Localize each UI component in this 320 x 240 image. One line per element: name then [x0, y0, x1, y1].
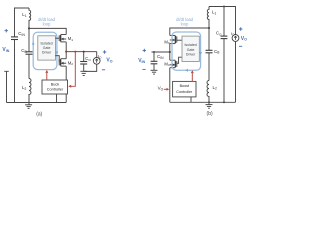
svg-text:loop: loop: [43, 21, 51, 26]
ground output (a): [80, 71, 87, 75]
svg-text:L1: L1: [212, 10, 217, 16]
node CO tap junction top (b): [223, 6, 225, 8]
wire VIN- rail lower segment (a): [14, 40, 16, 103]
node CO rail junction (b): [223, 101, 225, 103]
U1 isolated gate driver box (a): [38, 36, 56, 60]
node VO plus (a): [103, 50, 106, 53]
node VIN plus sign (a): [5, 29, 9, 32]
wire bridge bottom to rail (a): [65, 66, 67, 102]
svg-text:Gate: Gate: [187, 48, 195, 52]
inductor L2 (a): [22, 79, 31, 103]
inductor L1 (a): [22, 8, 30, 28]
node feedback tap junction (a): [74, 51, 76, 53]
svg-text:Buck: Buck: [51, 83, 60, 87]
svg-text:VIN: VIN: [2, 47, 9, 53]
svg-text:VO: VO: [106, 58, 112, 64]
wire PWM red arrow to driver (b): [191, 70, 194, 81]
svg-text:Isolated: Isolated: [184, 43, 196, 47]
wire feedback red path (a): [68, 52, 75, 88]
node switch node junction (a): [65, 51, 67, 53]
inductor L1 (b): [207, 7, 216, 29]
svg-text:M2: M2: [68, 60, 74, 66]
annotation dI/dt load loop blue box (a): [32, 32, 59, 69]
capacitor CB (a): [21, 28, 32, 78]
wire top rail to bridge (a): [29, 28, 66, 34]
wire PWM red arrow to driver (a): [45, 70, 48, 80]
svg-text:IO: IO: [98, 54, 102, 60]
node VO minus (a): [102, 69, 105, 71]
wire output rail red (a): [66, 51, 97, 53]
ground bottom rail (a): [25, 103, 32, 109]
ground input (b): [151, 70, 158, 74]
wire bridge top link (b): [170, 28, 209, 35]
label caption (a): [36, 111, 42, 117]
node VIN- terminal bar (a): [4, 71, 9, 102]
svg-text:CO: CO: [216, 31, 222, 37]
capacitor CO (a): [80, 52, 91, 72]
transistor M2 (a): [59, 59, 73, 67]
transistor M4 (b): [164, 60, 176, 67]
wire bridge mid segment (a): [65, 42, 67, 59]
svg-text:VO: VO: [158, 86, 164, 92]
svg-text:Gate: Gate: [43, 46, 51, 50]
svg-text:VIN: VIN: [138, 58, 145, 64]
node VIN minus (b): [142, 68, 145, 70]
wire gate lead M3 (b): [177, 39, 182, 41]
wire input rail (b): [152, 51, 170, 53]
node VIN label (a): [2, 47, 9, 53]
node VO label (a): [106, 58, 112, 64]
svg-text:CB: CB: [214, 49, 220, 55]
wire controller ground stub (b): [190, 97, 192, 102]
svg-text:Controller: Controller: [176, 90, 193, 94]
wire bottom rail with feedback riser (b): [170, 101, 236, 103]
svg-text:L2: L2: [213, 85, 218, 91]
svg-text:Driver: Driver: [186, 52, 196, 56]
svg-text:Driver: Driver: [42, 51, 52, 55]
svg-text:VO: VO: [241, 36, 247, 42]
node CIN tap junction (b): [153, 51, 155, 53]
node L2 rail junction (b): [208, 101, 210, 103]
node bridge input junction (b): [169, 51, 171, 53]
transistor M1 (a): [59, 35, 73, 43]
svg-text:IO: IO: [231, 31, 235, 37]
svg-text:Boost: Boost: [180, 84, 189, 88]
U2 isolated gate driver box (b): [182, 36, 199, 61]
node VO plus (b): [239, 27, 242, 30]
wire bridge mid segment (b): [169, 44, 171, 61]
label VO feedback (b): [158, 86, 164, 92]
svg-text:M4: M4: [164, 61, 170, 67]
box boost controller (b): [173, 81, 196, 97]
svg-text:M1: M1: [68, 36, 74, 42]
node CO tap junction (a): [83, 51, 85, 53]
svg-text:(a): (a): [36, 111, 42, 117]
transistor M3 (b): [164, 35, 176, 45]
wire top output rail (b): [209, 7, 236, 35]
svg-text:CO: CO: [85, 56, 91, 62]
capacitor CIN (a): [11, 31, 25, 40]
wire feedback red arrow (b): [164, 88, 169, 91]
annotation dI/dt load loop blue box (b): [172, 32, 202, 72]
label dI/dt load loop text (b): [176, 17, 194, 27]
svg-text:L1: L1: [22, 12, 27, 18]
label caption (b): [207, 111, 213, 117]
capacitor CIN (b): [151, 52, 165, 70]
wire VIN+ rail and top rail (a): [15, 8, 30, 37]
node VIN label (b): [138, 58, 145, 64]
node VO minus (b): [239, 45, 242, 47]
capacitor CO (b): [216, 7, 227, 103]
wire bridge bottom to rail (b): [169, 68, 171, 103]
current source IO (b): [231, 31, 239, 102]
svg-text:CIN: CIN: [157, 54, 164, 60]
wire bottom rail (a): [7, 102, 67, 104]
svg-text:M3: M3: [164, 39, 170, 45]
svg-text:Isolated: Isolated: [40, 41, 52, 45]
label dI/dt load loop text (a): [38, 17, 56, 27]
wire gate lead M4 (b): [177, 57, 182, 63]
current source IO (a): [84, 52, 102, 72]
node junction link / L1 leg (b): [208, 27, 210, 29]
wire controller ground stub (a): [56, 94, 58, 103]
box buck controller (a): [42, 80, 68, 94]
inductor L2 (b): [207, 81, 217, 103]
svg-text:CIN: CIN: [18, 31, 25, 37]
wire gate lead M2 (a): [55, 56, 59, 62]
capacitor CB (b): [206, 28, 221, 81]
svg-text:loop: loop: [181, 21, 189, 26]
svg-text:CB: CB: [21, 48, 27, 54]
node VO label (b): [241, 36, 247, 42]
wire gate lead M1 (a): [55, 37, 59, 39]
svg-text:L2: L2: [22, 85, 27, 91]
node junction L1 / CB / top rail (a): [28, 27, 30, 29]
svg-text:(b): (b): [207, 111, 213, 117]
node VIN plus sign (b): [143, 49, 146, 52]
svg-text:Controller: Controller: [47, 88, 64, 92]
ground bottom rail (b): [206, 102, 213, 108]
